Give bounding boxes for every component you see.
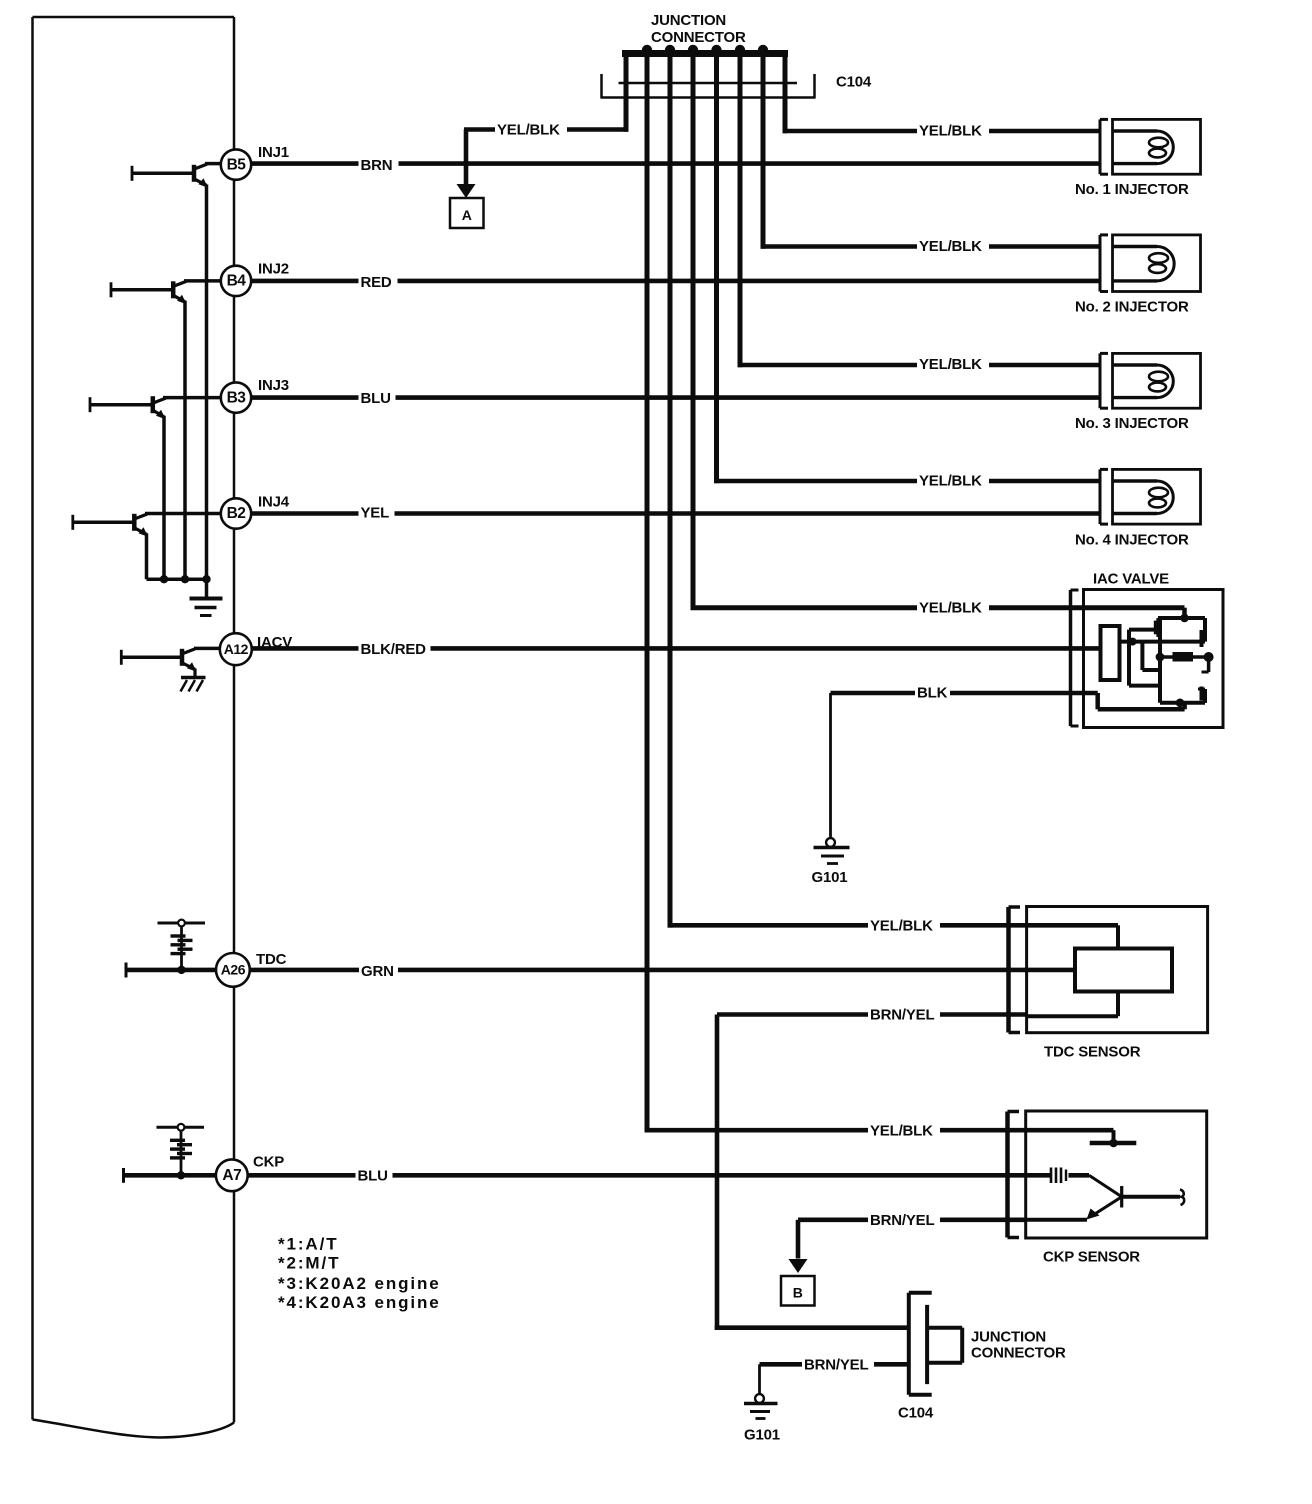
wire Q1 collector to B5 <box>205 162 221 166</box>
wire Q1 emitter <box>205 185 209 580</box>
transistor Q3 (INJ3 driver) <box>90 396 166 419</box>
svg-text:A12: A12 <box>224 641 249 657</box>
svg-text:B4: B4 <box>227 273 247 290</box>
label C104 (top) <box>836 74 872 91</box>
svg-text:B3: B3 <box>227 389 247 406</box>
svg-text:CKP SENSOR: CKP SENSOR <box>1043 1249 1140 1266</box>
ECM pin B4 <box>221 266 251 296</box>
label G101 (bottom) <box>744 1427 780 1444</box>
wire Q2 collector to B4 <box>184 279 221 283</box>
wire YEL/BLK feed No.1 injector <box>783 98 1099 134</box>
svg-text:*2:M/T: *2:M/T <box>278 1254 340 1273</box>
ECM pin B3 <box>221 382 251 412</box>
label BRN/YEL (TDC) <box>868 1006 940 1024</box>
label INJ2 <box>258 261 289 278</box>
label RED <box>359 273 398 291</box>
label YEL/BLK (No.1) <box>917 122 989 140</box>
label C104 (bottom) <box>898 1405 934 1422</box>
svg-text:YEL/BLK: YEL/BLK <box>870 1122 933 1139</box>
label YEL/BLK (No.3) <box>917 355 989 373</box>
label JUNCTION CONNECTOR (bottom) <box>971 1329 1066 1362</box>
transistor Q4 (INJ4 driver) <box>73 514 148 537</box>
svg-text:INJ4: INJ4 <box>258 494 290 511</box>
wire TDC BRN/YEL to C104 (bottom) <box>715 1015 909 1330</box>
wire YEL/BLK feed TDC sensor <box>668 98 1118 928</box>
label YEL/BLK (to A) <box>495 121 567 139</box>
junction connector C104 (top) <box>601 45 815 99</box>
label BRN/YEL (bottom) <box>802 1355 874 1373</box>
svg-text:B2: B2 <box>227 505 246 522</box>
ECM pin A12 <box>220 633 252 665</box>
svg-text:A26: A26 <box>221 962 246 978</box>
wire YEL/BLK stub left (to arrow A) <box>464 98 628 132</box>
label No. 1 INJECTOR <box>1075 181 1189 198</box>
svg-text:YEL/BLK: YEL/BLK <box>919 238 982 255</box>
svg-text:INJ2: INJ2 <box>258 261 289 278</box>
svg-text:YEL/BLK: YEL/BLK <box>919 356 982 373</box>
ground (ECM injector drivers) <box>190 579 223 615</box>
label No. 2 INJECTOR <box>1075 299 1189 316</box>
svg-text:BLK: BLK <box>917 685 948 702</box>
wire GRN (A26 to TDC sensor) <box>250 968 1075 973</box>
svg-text:INJ3: INJ3 <box>258 377 289 394</box>
label YEL <box>359 504 395 522</box>
label CKP <box>253 1154 284 1171</box>
wire BRN/YEL (bottom ground stub) <box>760 1362 909 1367</box>
ground G101 (bottom) <box>744 1364 778 1418</box>
label CKP SENSOR <box>1043 1249 1140 1266</box>
transistor Q5 (IACV driver) <box>121 649 196 672</box>
svg-text:IAC VALVE: IAC VALVE <box>1093 571 1169 588</box>
svg-text:JUNCTION: JUNCTION <box>651 12 726 29</box>
svg-text:A7: A7 <box>222 1167 241 1184</box>
wire tick A7 <box>124 1168 216 1183</box>
svg-text:YEL/BLK: YEL/BLK <box>919 600 982 617</box>
svg-text:BRN/YEL: BRN/YEL <box>870 1007 934 1024</box>
wire BRN/YEL (TDC) <box>717 1012 1027 1017</box>
CKP sensor <box>1008 1111 1207 1238</box>
svg-text:RED: RED <box>361 274 392 291</box>
transistor Q2 (INJ2 driver) <box>111 281 187 304</box>
label BLU <box>359 389 396 407</box>
ground G101 (IAC) <box>814 693 850 864</box>
svg-text:G101: G101 <box>744 1427 780 1444</box>
ECM pin B2 <box>221 498 251 528</box>
pull-up network (TDC) <box>158 920 206 975</box>
label YEL/BLK (CKP) <box>868 1121 940 1139</box>
svg-text:C104: C104 <box>898 1405 934 1422</box>
svg-text:B: B <box>793 1285 803 1301</box>
TDC sensor <box>1009 907 1208 1033</box>
wire Q4 emitter <box>145 533 149 579</box>
label INJ3 <box>258 377 289 394</box>
wire BLK (IAC valve ground lead) <box>831 691 1098 696</box>
wire BLU (B3 to No.3 injector) <box>251 395 1099 400</box>
chassis ground (Q5 emitter) <box>181 669 206 692</box>
label BLU (CKP) <box>356 1166 393 1184</box>
wire Q3 collector to B3 <box>163 396 221 400</box>
svg-text:YEL/BLK: YEL/BLK <box>919 473 982 490</box>
note engine variants <box>278 1235 441 1313</box>
injector No.4 (coil) <box>1100 469 1201 524</box>
svg-text:A: A <box>462 207 472 223</box>
svg-text:No. 1 INJECTOR: No. 1 INJECTOR <box>1075 181 1189 198</box>
svg-text:BRN/YEL: BRN/YEL <box>804 1357 868 1374</box>
label BLK <box>915 684 950 702</box>
pull-up network (CKP) <box>157 1124 205 1180</box>
svg-text:YEL/BLK: YEL/BLK <box>870 918 933 935</box>
label TDC <box>256 951 287 968</box>
svg-text:TDC SENSOR: TDC SENSOR <box>1044 1044 1141 1061</box>
label YEL/BLK (No.2) <box>917 237 989 255</box>
label No. 3 INJECTOR <box>1075 415 1189 432</box>
label BLK/RED <box>359 640 431 658</box>
svg-text:YEL/BLK: YEL/BLK <box>497 122 560 139</box>
svg-text:BRN/YEL: BRN/YEL <box>870 1212 934 1229</box>
wire YEL/BLK feed No.3 injector <box>738 98 1099 368</box>
svg-text:*1:A/T: *1:A/T <box>278 1235 339 1254</box>
connector box A <box>450 198 484 228</box>
ECM pin A26 <box>216 953 250 987</box>
svg-text:INJ1: INJ1 <box>258 144 289 161</box>
wire Q2 emitter <box>183 301 187 579</box>
ECM pin header line (right edge) <box>233 17 236 1423</box>
wire BRN/YEL (CKP) <box>798 1218 1026 1223</box>
wire Q5 collector to A12 <box>194 647 220 651</box>
wire YEL (B2 to No.4 injector) <box>251 511 1099 516</box>
label BRN <box>359 156 399 174</box>
wire YEL/BLK feed No.2 injector <box>761 98 1099 249</box>
svg-text:*3:K20A2 engine: *3:K20A2 engine <box>278 1274 441 1293</box>
label GRN <box>359 962 398 980</box>
svg-text:G101: G101 <box>812 869 848 886</box>
svg-text:*4:K20A3 engine: *4:K20A3 engine <box>278 1293 441 1312</box>
transistor Q1 (INJ1 driver) <box>132 164 208 188</box>
label IAC VALVE <box>1093 571 1169 588</box>
ECM pin A7 <box>216 1159 248 1191</box>
wire Q3 emitter <box>162 416 166 580</box>
arrow to B <box>789 1259 808 1273</box>
injector No.1 (coil) <box>1100 119 1201 174</box>
wire to arrow B <box>796 1220 801 1259</box>
wire BLU (A7 to CKP sensor) <box>248 1173 1089 1178</box>
ECM pin B5 <box>221 149 251 179</box>
svg-text:BLU: BLU <box>361 390 391 407</box>
label JUNCTION CONNECTOR (top) <box>651 12 746 46</box>
svg-text:YEL/BLK: YEL/BLK <box>919 123 982 140</box>
svg-text:B5: B5 <box>227 156 247 173</box>
svg-text:YEL: YEL <box>361 505 390 522</box>
junction emitters <box>160 575 211 583</box>
label YEL/BLK (TDC) <box>868 916 940 934</box>
ECM/PCM box outline <box>33 17 235 1438</box>
label YEL/BLK (IAC) <box>917 599 989 617</box>
svg-text:No. 2 INJECTOR: No. 2 INJECTOR <box>1075 299 1189 316</box>
label INJ1 <box>258 144 289 161</box>
svg-text:BLK/RED: BLK/RED <box>361 641 427 658</box>
connector box B <box>781 1276 815 1306</box>
wire RED (B4 to No.2 injector) <box>251 279 1099 284</box>
injector No.3 (coil) <box>1100 353 1201 408</box>
svg-text:BRN: BRN <box>361 157 393 174</box>
label BRN/YEL (CKP) <box>868 1211 940 1229</box>
svg-text:JUNCTION: JUNCTION <box>971 1329 1046 1346</box>
label YEL/BLK (No.4) <box>917 472 989 490</box>
junction connector C104 (bottom) <box>909 1293 962 1395</box>
label G101 (IAC) <box>812 869 848 886</box>
label No. 4 INJECTOR <box>1075 532 1189 549</box>
label TDC SENSOR <box>1044 1044 1141 1061</box>
wire emitter bus <box>147 577 207 581</box>
svg-text:No. 3 INJECTOR: No. 3 INJECTOR <box>1075 415 1189 432</box>
arrow to A <box>457 130 476 199</box>
svg-text:CONNECTOR: CONNECTOR <box>971 1345 1066 1362</box>
svg-text:GRN: GRN <box>361 963 394 980</box>
svg-text:TDC: TDC <box>256 951 287 968</box>
svg-text:C104: C104 <box>836 74 872 91</box>
label IACV <box>257 634 292 651</box>
svg-text:CKP: CKP <box>253 1154 284 1171</box>
wire BRN (B5 to No.1 injector) <box>251 161 1099 166</box>
svg-text:No. 4 INJECTOR: No. 4 INJECTOR <box>1075 532 1189 549</box>
label INJ4 <box>258 494 290 511</box>
svg-text:BLU: BLU <box>358 1168 388 1185</box>
wire BLK/RED (A12 to IAC valve) <box>252 646 1101 651</box>
injector No.2 (coil) <box>1100 235 1201 292</box>
wire Q4 collector to B2 <box>145 512 221 516</box>
IAC valve (motor assembly) <box>1071 590 1224 728</box>
wire YEL/BLK feed IAC valve <box>691 98 1185 611</box>
svg-text:CONNECTOR: CONNECTOR <box>651 29 746 46</box>
wire tick A26 <box>126 963 216 978</box>
wire YEL/BLK feed No.4 injector <box>714 98 1099 484</box>
wire YEL/BLK feed CKP sensor <box>645 98 1114 1133</box>
